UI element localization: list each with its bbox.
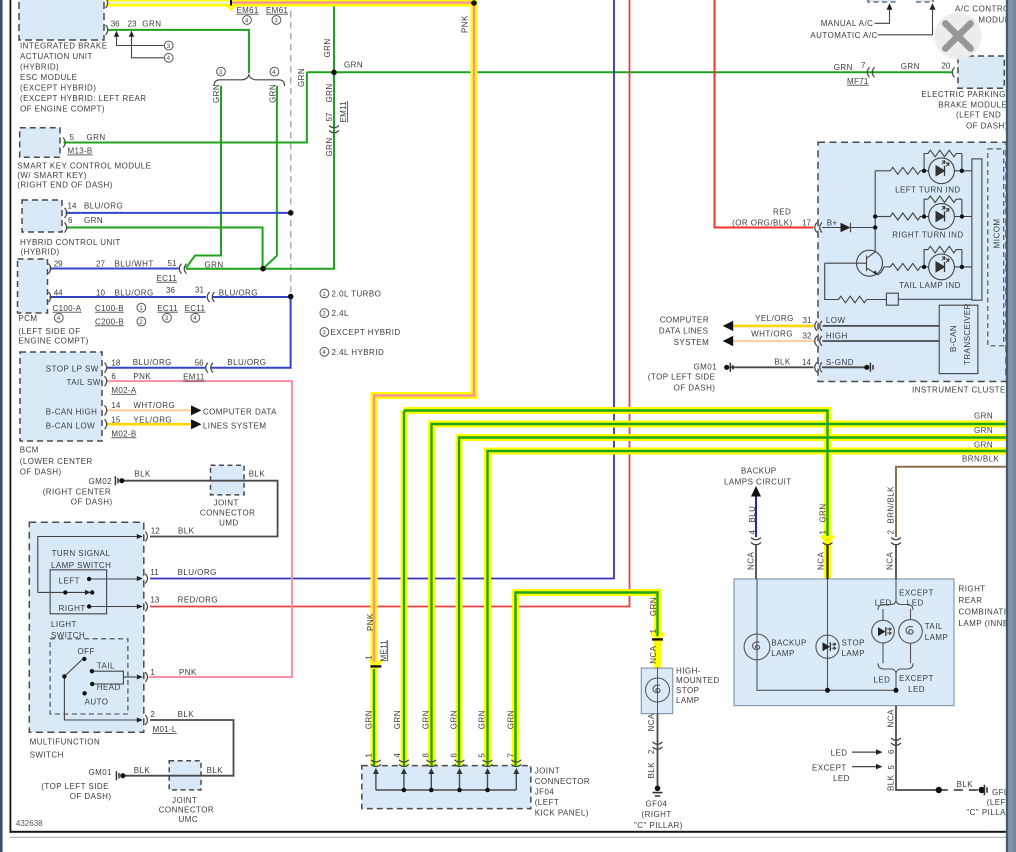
svg-text:2: 2 (647, 749, 656, 754)
svg-text:1: 1 (150, 668, 155, 677)
svg-text:INTEGRATED BRAKE: INTEGRATED BRAKE (20, 42, 108, 51)
svg-text:BLK: BLK (178, 710, 195, 719)
svg-text:LIGHT: LIGHT (51, 620, 77, 629)
svg-text:BACKUP: BACKUP (771, 638, 807, 647)
svg-text:(HYBRID): (HYBRID) (20, 63, 59, 72)
svg-text:(LEFT: (LEFT (535, 798, 559, 807)
svg-text:20: 20 (941, 61, 950, 70)
svg-text:(RIGHT: (RIGHT (642, 810, 672, 819)
svg-text:LAMP SWITCH: LAMP SWITCH (51, 561, 111, 570)
svg-text:GM01: GM01 (694, 363, 718, 372)
svg-text:M01-L: M01-L (153, 725, 177, 734)
svg-text:23: 23 (128, 19, 137, 28)
svg-text:S-GND: S-GND (826, 358, 854, 367)
svg-text:36: 36 (166, 286, 175, 295)
svg-text:SYSTEM: SYSTEM (674, 338, 710, 347)
svg-text:(EXCEPT HYBRID: LEFT REAR: (EXCEPT HYBRID: LEFT REAR (20, 94, 147, 103)
svg-text:15: 15 (111, 416, 120, 425)
svg-text:M02-B: M02-B (111, 429, 136, 438)
svg-text:5: 5 (70, 133, 75, 142)
svg-text:LOW: LOW (826, 316, 846, 325)
svg-text:8: 8 (421, 753, 430, 758)
svg-text:GRN: GRN (212, 84, 221, 103)
svg-text:GRN: GRN (901, 62, 920, 71)
svg-text:GRN: GRN (325, 83, 334, 102)
svg-text:(TOP LEFT SIDE: (TOP LEFT SIDE (41, 782, 109, 791)
svg-text:BRN/BLK: BRN/BLK (962, 455, 1000, 464)
svg-text:31: 31 (803, 316, 812, 325)
svg-text:JOINT: JOINT (214, 499, 239, 508)
svg-text:B-CAN: B-CAN (949, 325, 958, 352)
svg-text:GRN: GRN (268, 84, 277, 103)
svg-text:(OR ORG/BLK): (OR ORG/BLK) (732, 219, 793, 228)
svg-text:1: 1 (818, 530, 827, 535)
svg-text:GRN: GRN (325, 137, 334, 156)
svg-text:(HYBRID): (HYBRID) (21, 248, 60, 257)
svg-text:WHT/ORG: WHT/ORG (751, 329, 793, 338)
svg-text:LINES SYSTEM: LINES SYSTEM (203, 421, 267, 430)
svg-text:GM02: GM02 (89, 477, 113, 486)
svg-text:OF DASH): OF DASH) (70, 792, 112, 801)
svg-text:ELECTRIC PARKING: ELECTRIC PARKING (921, 90, 1005, 99)
svg-text:GF04: GF04 (646, 800, 668, 809)
svg-text:GRN: GRN (364, 710, 373, 729)
svg-text:TAIL SW: TAIL SW (67, 378, 101, 387)
svg-text:14: 14 (111, 401, 120, 410)
svg-text:BLK: BLK (134, 470, 151, 479)
svg-text:1: 1 (649, 629, 658, 634)
svg-text:M02-A: M02-A (111, 386, 136, 395)
svg-text:JOINT: JOINT (535, 767, 560, 776)
svg-text:BACKUP: BACKUP (741, 467, 777, 476)
svg-text:6: 6 (111, 372, 116, 381)
svg-text:2: 2 (886, 530, 895, 535)
svg-text:13: 13 (150, 596, 159, 605)
svg-text:GRN: GRN (974, 440, 993, 449)
svg-text:14: 14 (68, 201, 77, 210)
svg-text:GRN: GRN (87, 133, 106, 142)
svg-text:NCA: NCA (886, 709, 895, 727)
svg-text:NCA: NCA (647, 713, 656, 731)
svg-text:BLU/ORG: BLU/ORG (84, 201, 123, 210)
svg-text:JOINT: JOINT (172, 796, 197, 805)
svg-text:EC11: EC11 (185, 304, 206, 313)
svg-text:YEL/ORG: YEL/ORG (755, 314, 794, 323)
svg-text:KICK PANEL): KICK PANEL) (535, 809, 589, 818)
svg-text:(W/ SMART KEY): (W/ SMART KEY) (17, 171, 87, 180)
svg-text:5: 5 (478, 753, 487, 758)
svg-text:2: 2 (150, 710, 155, 719)
svg-text:C100-A: C100-A (53, 304, 82, 313)
svg-text:GRN: GRN (974, 426, 993, 435)
svg-text:DATA LINES: DATA LINES (659, 327, 709, 336)
svg-text:BLK: BLK (886, 774, 895, 791)
svg-text:TRANSCEIVER: TRANSCEIVER (963, 303, 972, 365)
svg-text:BLU: BLU (748, 506, 757, 523)
svg-text:NCA: NCA (746, 552, 755, 570)
svg-text:2: 2 (322, 311, 326, 318)
svg-text:ME11: ME11 (379, 640, 388, 662)
svg-text:BLK: BLK (249, 470, 266, 479)
svg-text:GRN: GRN (506, 710, 515, 729)
svg-text:31: 31 (195, 285, 204, 294)
svg-text:STOP: STOP (842, 638, 865, 647)
svg-text:AUTO: AUTO (85, 698, 109, 707)
svg-text:OF DASH): OF DASH) (966, 121, 1008, 130)
svg-text:"C" PILLAR): "C" PILLAR) (634, 821, 683, 830)
svg-text:BLU/WHT: BLU/WHT (115, 259, 154, 268)
svg-text:EM61: EM61 (237, 6, 259, 15)
svg-text:LED: LED (907, 599, 924, 608)
svg-text:36: 36 (111, 19, 120, 28)
svg-text:PCM: PCM (18, 314, 37, 323)
svg-text:EXCEPT: EXCEPT (899, 674, 934, 683)
svg-text:TAIL LAMP IND: TAIL LAMP IND (899, 281, 961, 290)
svg-text:LED: LED (908, 685, 925, 694)
svg-text:GRN: GRN (344, 60, 363, 69)
svg-text:11: 11 (150, 568, 159, 577)
svg-text:REAR: REAR (959, 596, 983, 605)
svg-text:EM61: EM61 (266, 6, 288, 15)
svg-text:3: 3 (219, 69, 223, 76)
svg-text:COMPUTER: COMPUTER (660, 316, 709, 325)
svg-text:56: 56 (195, 359, 204, 368)
svg-text:CONNECTOR: CONNECTOR (535, 777, 590, 786)
svg-text:BRN/BLK: BRN/BLK (886, 486, 895, 524)
svg-text:GRN: GRN (478, 710, 487, 729)
svg-text:MOUNTED: MOUNTED (676, 676, 720, 685)
svg-text:GRN: GRN (323, 38, 332, 57)
svg-text:UMC: UMC (179, 815, 199, 824)
svg-text:RED: RED (773, 207, 791, 216)
svg-text:OF DASH): OF DASH) (71, 497, 113, 506)
svg-text:SMART KEY CONTROL MODULE: SMART KEY CONTROL MODULE (17, 162, 151, 171)
svg-text:OF DASH): OF DASH) (674, 383, 716, 392)
svg-text:STOP: STOP (676, 686, 699, 695)
svg-text:5: 5 (887, 765, 896, 770)
svg-text:GM01: GM01 (89, 768, 113, 777)
svg-text:PNK: PNK (133, 372, 151, 381)
svg-text:INSTRUMENT CLUSTER: INSTRUMENT CLUSTER (912, 385, 1012, 394)
svg-text:RIGHT: RIGHT (959, 585, 986, 594)
svg-text:TURN SIGNAL: TURN SIGNAL (52, 549, 111, 558)
svg-text:GRN: GRN (393, 710, 402, 729)
svg-text:12: 12 (151, 526, 160, 535)
svg-text:(EXCEPT HYBRID): (EXCEPT HYBRID) (20, 84, 96, 93)
svg-text:BLK: BLK (178, 526, 195, 535)
svg-text:EM11: EM11 (339, 101, 348, 123)
svg-text:2.4L: 2.4L (332, 309, 349, 318)
svg-text:TAIL: TAIL (925, 622, 943, 631)
svg-text:2: 2 (139, 319, 143, 326)
svg-text:3: 3 (322, 329, 326, 336)
svg-text:4: 4 (393, 753, 402, 758)
svg-text:4: 4 (57, 315, 61, 322)
svg-text:ENGINE COMPT): ENGINE COMPT) (18, 336, 88, 345)
svg-text:4: 4 (748, 530, 757, 535)
svg-text:PNK: PNK (366, 613, 375, 631)
svg-text:EXCEPT: EXCEPT (812, 764, 847, 773)
svg-text:OFF: OFF (78, 647, 95, 656)
svg-text:OF DASH): OF DASH) (20, 468, 62, 477)
svg-text:3: 3 (165, 315, 169, 322)
svg-text:HIGH-: HIGH- (676, 666, 701, 675)
svg-text:WHT/ORG: WHT/ORG (133, 401, 175, 410)
svg-text:EC11: EC11 (157, 304, 178, 313)
svg-text:LAMP: LAMP (925, 633, 949, 642)
svg-text:RIGHT: RIGHT (59, 604, 86, 613)
svg-text:BLU/ORG: BLU/ORG (133, 358, 172, 367)
svg-text:ACTUATION UNIT: ACTUATION UNIT (20, 52, 93, 61)
svg-text:EXCEPT: EXCEPT (899, 588, 934, 597)
svg-text:MANUAL A/C: MANUAL A/C (821, 19, 874, 28)
svg-text:6: 6 (68, 216, 73, 225)
svg-text:3: 3 (167, 43, 171, 50)
svg-text:MULTIFUNCTION: MULTIFUNCTION (30, 738, 101, 747)
svg-text:1: 1 (364, 655, 373, 660)
svg-text:32: 32 (803, 331, 812, 340)
svg-text:LAMPS CIRCUIT: LAMPS CIRCUIT (724, 478, 792, 487)
svg-text:LED: LED (833, 774, 850, 783)
svg-text:B+: B+ (827, 218, 838, 227)
svg-text:PNK: PNK (461, 15, 470, 33)
svg-text:14: 14 (802, 358, 811, 367)
svg-text:432638: 432638 (16, 819, 43, 828)
svg-text:BCM: BCM (20, 445, 39, 454)
svg-text:2.4L HYBRID: 2.4L HYBRID (332, 348, 385, 357)
svg-text:4: 4 (245, 17, 249, 24)
svg-text:BLK: BLK (647, 762, 656, 779)
svg-text:4: 4 (272, 69, 276, 76)
svg-text:LAMP: LAMP (842, 649, 866, 658)
svg-text:4: 4 (193, 315, 197, 322)
svg-text:EC11: EC11 (157, 274, 178, 283)
svg-text:17: 17 (802, 219, 811, 228)
svg-text:HEAD: HEAD (97, 683, 121, 692)
svg-text:GRN: GRN (834, 63, 853, 72)
svg-text:ESC MODULE: ESC MODULE (20, 73, 77, 82)
svg-text:4: 4 (322, 349, 326, 356)
svg-text:(TOP LEFT SIDE: (TOP LEFT SIDE (648, 373, 716, 382)
svg-text:SWITCH: SWITCH (51, 631, 85, 640)
svg-text:1: 1 (139, 305, 143, 312)
svg-text:GRN: GRN (142, 19, 161, 28)
svg-text:LED: LED (874, 675, 891, 684)
svg-text:(RIGHT END OF DASH): (RIGHT END OF DASH) (17, 181, 113, 190)
svg-text:CONNECTOR: CONNECTOR (159, 805, 214, 814)
svg-text:HYBRID CONTROL UNIT: HYBRID CONTROL UNIT (20, 238, 121, 247)
svg-text:YEL/ORG: YEL/ORG (133, 416, 172, 425)
svg-text:GRN: GRN (421, 710, 430, 729)
svg-text:AUTOMATIC A/C: AUTOMATIC A/C (810, 31, 877, 40)
svg-text:51: 51 (168, 259, 177, 268)
svg-text:18: 18 (111, 359, 120, 368)
svg-text:BLU/ORG: BLU/ORG (178, 568, 217, 577)
svg-text:(LEFT END: (LEFT END (956, 111, 1001, 120)
svg-text:EM11: EM11 (183, 373, 205, 382)
svg-text:OF ENGINE COMPT): OF ENGINE COMPT) (20, 105, 105, 114)
svg-text:10: 10 (96, 289, 105, 298)
svg-text:SWITCH: SWITCH (30, 750, 64, 759)
svg-text:1: 1 (322, 291, 326, 298)
svg-text:BLK: BLK (957, 780, 974, 789)
svg-text:MICOM: MICOM (992, 218, 1001, 248)
svg-text:NCA: NCA (885, 552, 894, 570)
svg-text:LEFT: LEFT (59, 576, 80, 585)
svg-text:BLU/ORG: BLU/ORG (227, 358, 266, 367)
svg-text:1: 1 (364, 753, 373, 758)
svg-text:GRN: GRN (450, 710, 459, 729)
svg-text:RED/ORG: RED/ORG (178, 596, 219, 605)
svg-text:MF71: MF71 (847, 77, 869, 86)
svg-text:GRN: GRN (649, 597, 658, 616)
svg-text:7: 7 (861, 61, 866, 70)
svg-text:7: 7 (506, 753, 515, 758)
svg-text:TAIL: TAIL (97, 661, 115, 670)
svg-text:COMPUTER DATA: COMPUTER DATA (203, 408, 277, 417)
svg-text:BLK: BLK (774, 358, 791, 367)
svg-text:4: 4 (167, 55, 171, 62)
svg-text:27: 27 (96, 259, 105, 268)
svg-text:HIGH: HIGH (826, 331, 848, 340)
svg-text:RIGHT TURN IND: RIGHT TURN IND (892, 231, 963, 240)
svg-text:(LEFT SIDE OF: (LEFT SIDE OF (18, 327, 80, 336)
svg-text:LED: LED (831, 748, 848, 757)
svg-text:BLK: BLK (207, 766, 224, 775)
svg-text:(LOWER CENTER: (LOWER CENTER (20, 457, 93, 466)
svg-text:EXCEPT HYBRID: EXCEPT HYBRID (331, 328, 401, 337)
svg-text:UMD: UMD (219, 518, 239, 527)
svg-text:JF04: JF04 (535, 788, 555, 797)
svg-text:LAMP: LAMP (676, 696, 700, 705)
svg-text:M13-B: M13-B (68, 147, 93, 156)
svg-text:6: 6 (887, 749, 896, 754)
svg-text:GRN: GRN (205, 261, 224, 270)
svg-text:GRN: GRN (84, 216, 103, 225)
svg-text:NCA: NCA (649, 645, 658, 663)
svg-text:2.0L TURBO: 2.0L TURBO (332, 290, 382, 299)
svg-text:C100-B: C100-B (95, 304, 124, 313)
svg-text:B-CAN HIGH: B-CAN HIGH (46, 407, 98, 416)
svg-text:STOP LP SW: STOP LP SW (46, 365, 99, 374)
svg-text:GRN: GRN (818, 503, 827, 522)
svg-text:CONNECTOR: CONNECTOR (200, 509, 255, 518)
svg-text:NCA: NCA (816, 552, 825, 570)
svg-text:BLU/ORG: BLU/ORG (219, 288, 258, 297)
svg-text:57: 57 (325, 112, 334, 121)
svg-text:A/C CONTROL: A/C CONTROL (955, 5, 1015, 14)
svg-text:GRN: GRN (297, 68, 306, 87)
svg-text:LEFT TURN IND: LEFT TURN IND (895, 186, 961, 195)
svg-text:44: 44 (54, 289, 63, 298)
svg-text:3: 3 (274, 17, 278, 24)
svg-text:BLK: BLK (134, 766, 151, 775)
svg-text:GRN: GRN (974, 412, 993, 421)
svg-text:29: 29 (54, 259, 63, 268)
svg-text:LED: LED (875, 599, 892, 608)
svg-text:BRAKE MODULE: BRAKE MODULE (938, 101, 1007, 110)
svg-text:B-CAN LOW: B-CAN LOW (46, 422, 95, 431)
svg-text:PNK: PNK (179, 668, 197, 677)
svg-text:LAMP: LAMP (771, 649, 795, 658)
svg-text:BLU/ORG: BLU/ORG (115, 289, 154, 298)
svg-text:(RIGHT CENTER: (RIGHT CENTER (43, 487, 111, 496)
svg-text:6: 6 (450, 753, 459, 758)
svg-text:C200-B: C200-B (95, 317, 124, 326)
